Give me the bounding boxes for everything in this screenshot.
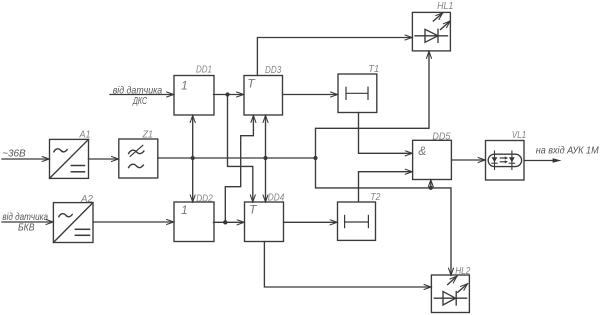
wire VL1 output — [525, 160, 555, 162]
wire DD1 output down to DD4 top input — [228, 95, 253, 202]
led indicator HL1 — [412, 12, 450, 51]
svg-text:1: 1 — [181, 203, 188, 217]
converter A1 — [50, 139, 89, 178]
wire distribution loop branch up into DD5 bottom — [430, 180, 432, 188]
wire bus: Z1 output clock line — [158, 157, 316, 159]
svg-text:1: 1 — [181, 78, 188, 92]
wire DD4 output to T2 — [284, 221, 338, 223]
and gate DD5 — [413, 140, 452, 179]
junction dot at DD5 bottom branch — [429, 186, 433, 190]
logic block DD2 — [174, 202, 214, 242]
trigger block DD3 — [244, 76, 283, 116]
junction dot on DD2 output — [223, 220, 227, 224]
wire DD1 output to DD3 — [214, 94, 244, 96]
svg-text:Z1: Z1 — [142, 130, 153, 141]
svg-text:DD2: DD2 — [196, 193, 213, 204]
svg-text:DD3: DD3 — [265, 65, 281, 76]
pulse block T2 — [338, 202, 376, 240]
wire ~36V input to A1 — [2, 158, 49, 160]
led indicator HL2 — [431, 275, 469, 313]
pulse block T1 — [338, 74, 377, 113]
wire distribution loop from bus to HL1 — [316, 51, 430, 158]
junction dot on bus at DD3/DD4 branch — [263, 156, 267, 160]
wire bus branch up into DD1 bottom — [192, 115, 194, 158]
wire BKV input to A2 — [2, 221, 53, 223]
svg-text:~36В: ~36В — [2, 149, 26, 160]
svg-text:T2: T2 — [370, 192, 380, 203]
wire T2 output up and right to DD5 input 2 — [359, 172, 413, 202]
svg-text:від датчика: від датчика — [2, 212, 48, 223]
svg-text:T1: T1 — [368, 64, 379, 75]
svg-text:DD1: DD1 — [196, 65, 212, 76]
optocoupler VL1 — [486, 141, 525, 181]
svg-text:A1: A1 — [79, 130, 91, 141]
junction dot at bus end to distribution loop — [313, 156, 317, 160]
wire DD3 output to T1 — [283, 94, 338, 96]
wire distribution loop bottom to HL2 — [316, 158, 452, 275]
wire DD4 bottom output down and right to HL2 — [264, 242, 431, 288]
svg-text:ДКС: ДКС — [132, 96, 147, 107]
junction dot on bus at DD1/DD2 branch — [191, 156, 195, 160]
wire DD5 output to VL1 — [452, 159, 486, 161]
svg-text:БКВ: БКВ — [18, 222, 35, 233]
svg-text:HL1: HL1 — [437, 1, 453, 12]
svg-text:T: T — [247, 77, 256, 91]
wire bus branch down into DD4 top — [265, 158, 267, 202]
wire DD3 top output up and right to HL1 — [257, 38, 412, 76]
wire bus branch down into DD2 top — [192, 158, 194, 202]
wire A2 output to DD2 — [93, 221, 174, 223]
svg-text:A2: A2 — [80, 194, 93, 205]
svg-text:DD5: DD5 — [432, 131, 450, 142]
junction dot on DD1 output — [225, 92, 229, 96]
wire DD2 output up to DD3 bottom input — [225, 115, 253, 222]
svg-text:HL2: HL2 — [455, 266, 470, 277]
trigger block DD4 — [245, 202, 284, 242]
wire bus branch up into DD3 bottom — [265, 115, 267, 158]
logic block DD1 — [174, 76, 214, 116]
svg-text:T: T — [249, 202, 258, 216]
wire DKC input to DD1 — [110, 94, 174, 96]
wire T1 output down and right to DD5 input 1 — [359, 113, 413, 154]
wire DD2 output to DD4 — [214, 221, 245, 223]
filter Z1 — [119, 139, 158, 178]
svg-text:&: & — [418, 144, 426, 158]
converter A2 — [53, 203, 93, 243]
svg-text:VL1: VL1 — [512, 130, 526, 141]
svg-text:DD4: DD4 — [268, 192, 285, 203]
wire A1 to Z1 — [89, 158, 119, 160]
svg-text:на вхід АУК 1М: на вхід АУК 1М — [536, 145, 599, 156]
